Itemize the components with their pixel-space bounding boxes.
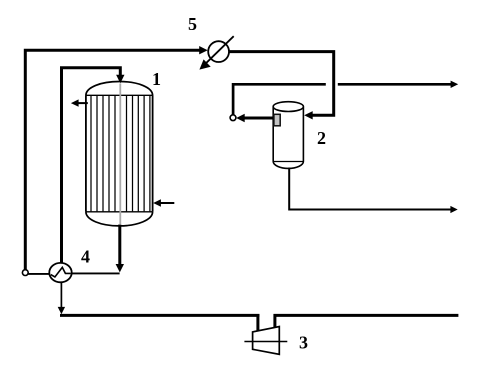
- svg-text:5: 5: [188, 14, 197, 34]
- svg-text:3: 3: [299, 333, 308, 353]
- svg-text:2: 2: [317, 128, 326, 148]
- svg-text:1: 1: [152, 69, 161, 89]
- svg-text:4: 4: [81, 247, 90, 267]
